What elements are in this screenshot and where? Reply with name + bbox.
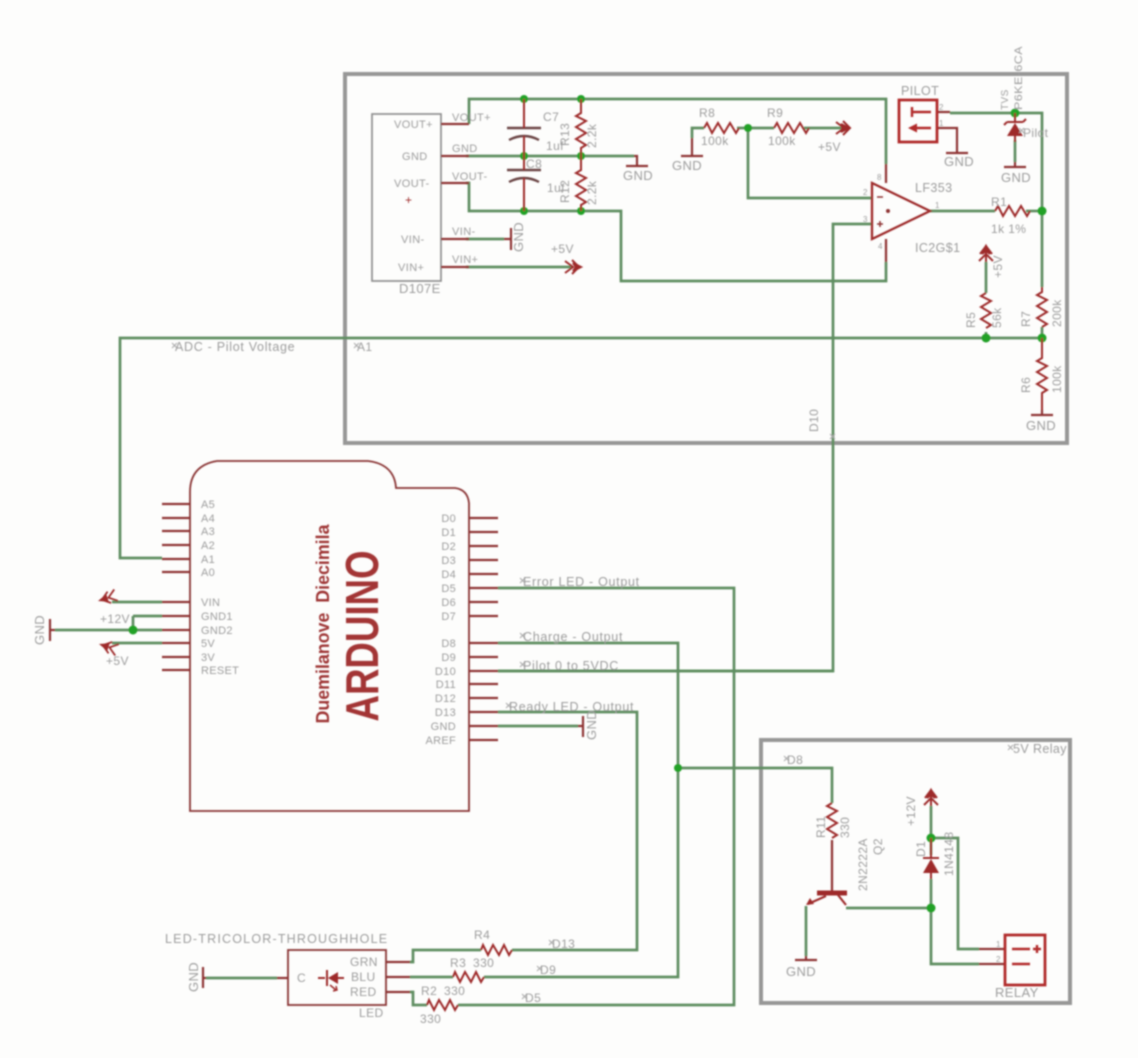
svg-text:2.2k: 2.2k (585, 180, 599, 205)
svg-text:R9: R9 (767, 106, 783, 120)
svg-text:1: 1 (935, 201, 940, 210)
svg-text:VIN-: VIN- (401, 234, 425, 246)
frame: 5V relay block (761, 740, 1070, 1003)
svg-text:A1: A1 (357, 340, 372, 354)
svg-text:TVS: TVS (1000, 89, 1011, 110)
svg-text:PILOT: PILOT (901, 84, 939, 98)
svg-text:VOUT+: VOUT+ (394, 119, 433, 131)
resistor R3 330 horizontal (453, 972, 484, 982)
svg-text:Pilot 0 to 5VDC: Pilot 0 to 5VDC (523, 659, 619, 673)
svg-text:LED-TRICOLOR-THROUGHHOLE: LED-TRICOLOR-THROUGHHOLE (165, 932, 388, 946)
svg-text:GND: GND (944, 154, 974, 169)
svg-text:3: 3 (863, 215, 868, 224)
LED module pin stubs (277, 962, 410, 992)
R11 bottom lead to Q2 base (831, 840, 833, 891)
svg-text:D13: D13 (552, 937, 575, 951)
wire arduino GND pin to gnd (498, 725, 578, 728)
svg-text:GND: GND (786, 964, 816, 979)
svg-text:56k: 56k (990, 307, 1004, 328)
svg-text:R11: R11 (814, 816, 828, 838)
svg-text:A2: A2 (201, 540, 215, 552)
svg-text:LF353: LF353 (915, 181, 952, 195)
svg-text:VIN: VIN (201, 597, 220, 609)
svg-text:ARDUINO: ARDUINO (336, 551, 388, 722)
ground (near C8/R12 rail) (626, 156, 648, 166)
svg-text:A4: A4 (201, 513, 215, 525)
arduino right pin stubs (469, 518, 498, 616)
svg-text:GND: GND (1026, 418, 1056, 433)
module LED tricolor box (288, 950, 386, 1005)
svg-text:3V: 3V (201, 652, 215, 664)
svg-text:Ready LED - Output: Ready LED - Output (509, 700, 634, 714)
svg-text:C7: C7 (543, 110, 559, 124)
pin VOUT+ stub (441, 123, 469, 125)
resistor R4 330 horizontal (481, 945, 512, 955)
svg-text:D107E: D107E (399, 281, 441, 296)
svg-text:ADC - Pilot Voltage: ADC - Pilot Voltage (175, 340, 295, 354)
svg-text:D8: D8 (441, 638, 456, 650)
frame: upper circuit block (345, 74, 1070, 1003)
svg-text:D11: D11 (436, 679, 456, 691)
pin GND stub (441, 155, 469, 157)
svg-text:+12V: +12V (904, 796, 918, 826)
connector RELAY (1005, 935, 1045, 985)
wire Ready LED net D13 (498, 712, 637, 950)
wire Error LED net D5 (458, 588, 734, 1005)
ground (arduino left rotated) (50, 619, 55, 641)
svg-text:GND: GND (431, 721, 456, 733)
svg-text:VOUT+: VOUT+ (452, 112, 491, 124)
svg-text:LED: LED (359, 1006, 384, 1020)
diode D1 1N4148 (923, 838, 939, 879)
LED symbol (318, 970, 344, 991)
supply arrow +12V (relay, up) (924, 790, 938, 806)
wire LED common to GND (206, 977, 277, 980)
svg-text:D8: D8 (787, 753, 803, 767)
svg-text:Duemilanove Diecimila: Duemilanove Diecimila (312, 524, 333, 724)
capacitor C7 1uf polarized (507, 128, 541, 182)
resistor R9 100k horizontal (774, 123, 809, 133)
svg-text:A5: A5 (201, 499, 215, 511)
svg-text:2: 2 (863, 188, 868, 197)
svg-text:330: 330 (444, 984, 465, 998)
svg-text:Charge - Output: Charge - Output (523, 630, 623, 644)
wire op-amp minus input / D10 net (498, 224, 872, 671)
supply arrow +5V (R9 right) (836, 121, 850, 135)
svg-text:R1: R1 (991, 195, 1007, 209)
resistor R6 100k vertical (1037, 338, 1047, 410)
wire Charge net D8/D9 (484, 643, 678, 977)
svg-text:+5V: +5V (818, 140, 841, 154)
svg-text:Q2: Q2 (871, 838, 885, 855)
svg-text:1: 1 (996, 940, 1001, 949)
wire Q2 emitter to GND (805, 906, 808, 956)
net names outside module (452, 112, 491, 266)
resistors (427, 99, 1047, 1010)
svg-text:GND: GND (402, 151, 428, 163)
svg-text:D2: D2 (441, 541, 456, 553)
svg-text:VIN-: VIN- (452, 226, 476, 238)
wire R4 to GRN pin (410, 950, 481, 962)
svg-text:RESET: RESET (201, 665, 239, 677)
wire TVS lower (1014, 140, 1017, 162)
svg-text:+: + (405, 193, 412, 207)
module pin names inside (394, 119, 433, 274)
ground (arduino AREF-side rotated) (578, 716, 583, 737)
svg-text:GND: GND (186, 962, 201, 992)
wire relay branch D8 (678, 768, 832, 803)
svg-text:D4: D4 (441, 569, 456, 581)
svg-text:R5: R5 (964, 312, 978, 328)
relay connector pin stubs (979, 949, 1005, 964)
svg-text:1N4148: 1N4148 (942, 832, 956, 876)
svg-text:330: 330 (420, 1012, 441, 1026)
svg-text:D3: D3 (441, 555, 456, 567)
diode TVS P6KE zener (1004, 113, 1026, 142)
svg-text:1: 1 (939, 119, 944, 128)
wire R8 left to GND (692, 128, 704, 138)
module ARDUINO outline (190, 461, 469, 811)
svg-text:2.2k: 2.2k (585, 123, 599, 148)
svg-text:A3: A3 (201, 526, 215, 538)
wire Q2 collector to D1 (846, 879, 931, 908)
supply arrow +12V (arduino VIN, up-left) (96, 589, 118, 606)
wire +5V to 5V pin (112, 642, 162, 645)
wire ADC - Pilot Voltage rail (120, 338, 1042, 558)
svg-text:R8: R8 (699, 106, 715, 120)
arduino left pin stubs (162, 504, 190, 572)
svg-text:GND2: GND2 (201, 625, 233, 637)
pin VIN- stub (441, 238, 469, 240)
wire divider to op-amp plus input (748, 128, 872, 198)
supply arrow +5V (VIN+ row) (565, 260, 581, 274)
svg-text:C8: C8 (526, 157, 542, 171)
svg-text:+5V: +5V (106, 654, 129, 668)
op-amp V- pin (885, 239, 887, 262)
wire VIN- to GND (466, 238, 504, 241)
svg-text:200k: 200k (1050, 299, 1064, 327)
wire GND2 to GND (55, 616, 162, 630)
ground (LED rotated) (203, 967, 206, 988)
resistor R11 330 vertical (827, 803, 837, 838)
ground (R8 left) (681, 138, 703, 156)
svg-text:+5V: +5V (991, 255, 1005, 278)
svg-text:5V Relay: 5V Relay (1013, 742, 1067, 756)
pin VOUT- stub (441, 182, 469, 184)
svg-text:2: 2 (939, 103, 944, 112)
svg-text:R6: R6 (1019, 377, 1033, 393)
module IC1 DC-DC converter box (372, 114, 441, 281)
svg-text:D0: D0 (441, 513, 456, 525)
svg-text:AREF: AREF (425, 735, 456, 747)
svg-text:D10: D10 (807, 409, 821, 432)
svg-text:4: 4 (878, 242, 883, 251)
op-amp V+ pin (885, 164, 887, 183)
arduino pin names (201, 499, 456, 747)
svg-text:GRN: GRN (350, 955, 378, 969)
svg-text:100k: 100k (1050, 365, 1064, 393)
wire R9 to +5V arrow (804, 127, 841, 130)
svg-text:GND: GND (1001, 170, 1031, 185)
supply arrow +5V (R5 top, up) (979, 246, 993, 262)
svg-text:5V: 5V (201, 638, 215, 650)
wire right vertical rail (950, 113, 1042, 287)
svg-text:BLU: BLU (351, 970, 376, 984)
svg-text:2N2222A: 2N2222A (856, 838, 870, 891)
svg-text:100k: 100k (701, 134, 729, 148)
svg-text:Error LED - Output: Error LED - Output (523, 575, 640, 589)
svg-text:D12: D12 (435, 693, 456, 705)
svg-text:D6: D6 (441, 597, 456, 609)
transistor Q2 2N2222A (806, 893, 847, 905)
wire GND1 (133, 615, 162, 618)
ground (TVS bottom) (1004, 162, 1026, 167)
wire R1 to right vertical (1026, 210, 1042, 213)
resistor R13 vertical (576, 99, 586, 156)
supply arrow +5V (arduino 5V, down-left) (97, 638, 119, 655)
svg-text:1k 1%: 1k 1% (991, 222, 1026, 236)
wire +12V to VIN (112, 601, 162, 604)
wire R5 to +5V (985, 262, 988, 338)
svg-text:D9: D9 (540, 963, 556, 977)
wire VOUT+ top rail to op-amp V+ (469, 99, 886, 164)
svg-text:+12V: +12V (100, 612, 130, 626)
svg-text:RELAY: RELAY (995, 985, 1039, 1000)
svg-text:R2: R2 (421, 984, 437, 998)
svg-text:D7: D7 (441, 611, 456, 623)
svg-text:VIN+: VIN+ (398, 262, 424, 274)
ground (PILOT pin1) (946, 150, 968, 153)
svg-text:D10: D10 (435, 666, 456, 678)
svg-text:GND: GND (584, 710, 599, 740)
svg-text:A1: A1 (201, 554, 215, 566)
svg-text:Pilot: Pilot (1023, 126, 1049, 140)
wire R2 to RED pin (410, 992, 427, 1005)
wire R8-R9 junction (737, 127, 774, 130)
wire GND rail (466, 155, 634, 158)
resistor R7 200k vertical (1037, 287, 1047, 327)
svg-text:R12: R12 (558, 180, 572, 203)
svg-text:GND1: GND1 (201, 611, 233, 623)
PILOT pin1 stub and drop (937, 128, 957, 150)
wire R7 leads (1041, 327, 1044, 338)
svg-text:D5: D5 (441, 583, 456, 595)
wire R3 to BLU pin (410, 976, 453, 979)
svg-text:D1: D1 (441, 527, 456, 539)
svg-text:D5: D5 (525, 991, 541, 1005)
wire VIN+ to +5V (466, 266, 573, 269)
wire D1 to +12V (930, 806, 933, 855)
svg-text:8: 8 (877, 173, 882, 182)
ground (Q2 emitter) (795, 956, 817, 960)
svg-text:VIN+: VIN+ (452, 254, 478, 266)
wire op-amp output to R1 (930, 210, 995, 213)
svg-text:GND: GND (32, 615, 47, 645)
svg-text:2: 2 (996, 955, 1001, 964)
svg-text:330: 330 (838, 817, 852, 838)
wire relay pin1 branch (931, 838, 979, 949)
svg-text:VOUT-: VOUT- (394, 178, 430, 190)
resistor R8 100k horizontal (704, 123, 739, 133)
capacitor C8 1uf polarized (507, 169, 541, 171)
label origin ticks (172, 128, 1024, 999)
svg-text:D13: D13 (435, 707, 456, 719)
svg-text:IC2G$1: IC2G$1 (915, 241, 960, 255)
svg-text:D9: D9 (441, 652, 456, 664)
svg-text:VOUT-: VOUT- (452, 171, 488, 183)
resistor R12 vertical (576, 156, 586, 211)
wire VOUT- bottom rail to op-amp V- (466, 183, 886, 281)
connector PILOT (899, 100, 937, 142)
svg-text:+5V: +5V (551, 242, 574, 256)
resistor R5 56k vertical (981, 293, 991, 328)
resistor R1 1k horizontal (995, 206, 1030, 216)
svg-text:R4: R4 (474, 928, 490, 942)
ground (VIN- rotated) (504, 228, 511, 250)
svg-text:RED: RED (350, 985, 377, 999)
wire Pilot 0 to 5VDC from D10 (498, 670, 833, 673)
svg-text:GND: GND (452, 143, 478, 155)
svg-text:GND: GND (672, 158, 702, 173)
wire relay pin2 branch (931, 908, 979, 964)
svg-text:R7: R7 (1019, 311, 1033, 327)
PILOT pin2 stub (937, 111, 950, 113)
svg-text:R13: R13 (558, 123, 572, 146)
svg-text:C: C (297, 971, 306, 985)
pin VIN+ stub (441, 266, 469, 268)
ground symbols (bar style) (50, 138, 1053, 988)
svg-text:330: 330 (473, 956, 494, 970)
svg-text:D1: D1 (914, 841, 928, 857)
svg-text:P6KE-6CA: P6KE-6CA (1013, 46, 1025, 110)
GND symbol texts (32, 154, 1056, 992)
ground (R6 bottom) (1031, 410, 1053, 415)
svg-text:GND: GND (511, 222, 526, 252)
svg-text:R3: R3 (450, 956, 466, 970)
resistor R2 330 horizontal (427, 1000, 458, 1010)
op-amp IC2 LF353 (872, 183, 930, 239)
svg-text:GND: GND (623, 168, 653, 183)
svg-text:A0: A0 (201, 567, 215, 579)
svg-text:100k: 100k (768, 134, 796, 148)
